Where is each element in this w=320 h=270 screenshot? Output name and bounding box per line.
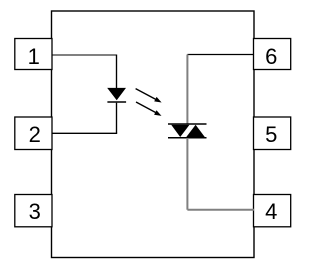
LED D1 triangle [108,88,125,99]
svg-text:1: 1 [28,44,40,69]
svg-text:3: 3 [29,199,41,224]
wire LED cathode to pin2 (horizontal) [52,132,117,134]
wire pin1 to LED anode (horizontal) [52,54,117,56]
wire LED anode drop (vertical) [116,55,118,90]
pin 3 box [15,195,52,227]
svg-text:5: 5 [265,122,277,147]
light arrow 2 [136,102,162,116]
pin 6 box [254,39,291,70]
IC body U1 (6-pin DIP outline) [52,11,255,258]
triac Q1 top bar [168,123,207,125]
pin 1 box [15,39,52,70]
LED D1 cathode bar [107,101,126,103]
svg-text:2: 2 [29,122,41,147]
wire triac top lead (vertical, gray) [186,55,188,125]
wire triac to pin4 (horizontal, gray) [187,209,254,211]
triac Q1 bottom bar [168,137,207,139]
pin 4 box [254,195,291,227]
triac Q1 left triangle (points down) [171,125,189,137]
pin 5 box [254,117,291,150]
wire triac bottom lead (vertical, gray) [186,138,188,210]
wire LED cathode to pin2 (vertical) [116,103,118,133]
svg-text:6: 6 [265,44,277,69]
triac Q1 right triangle (points up) [186,125,205,137]
pin 2 box [15,117,52,150]
light arrow 1 [136,89,162,103]
svg-text:4: 4 [265,199,277,224]
wire pin6 (horizontal) [187,54,254,56]
